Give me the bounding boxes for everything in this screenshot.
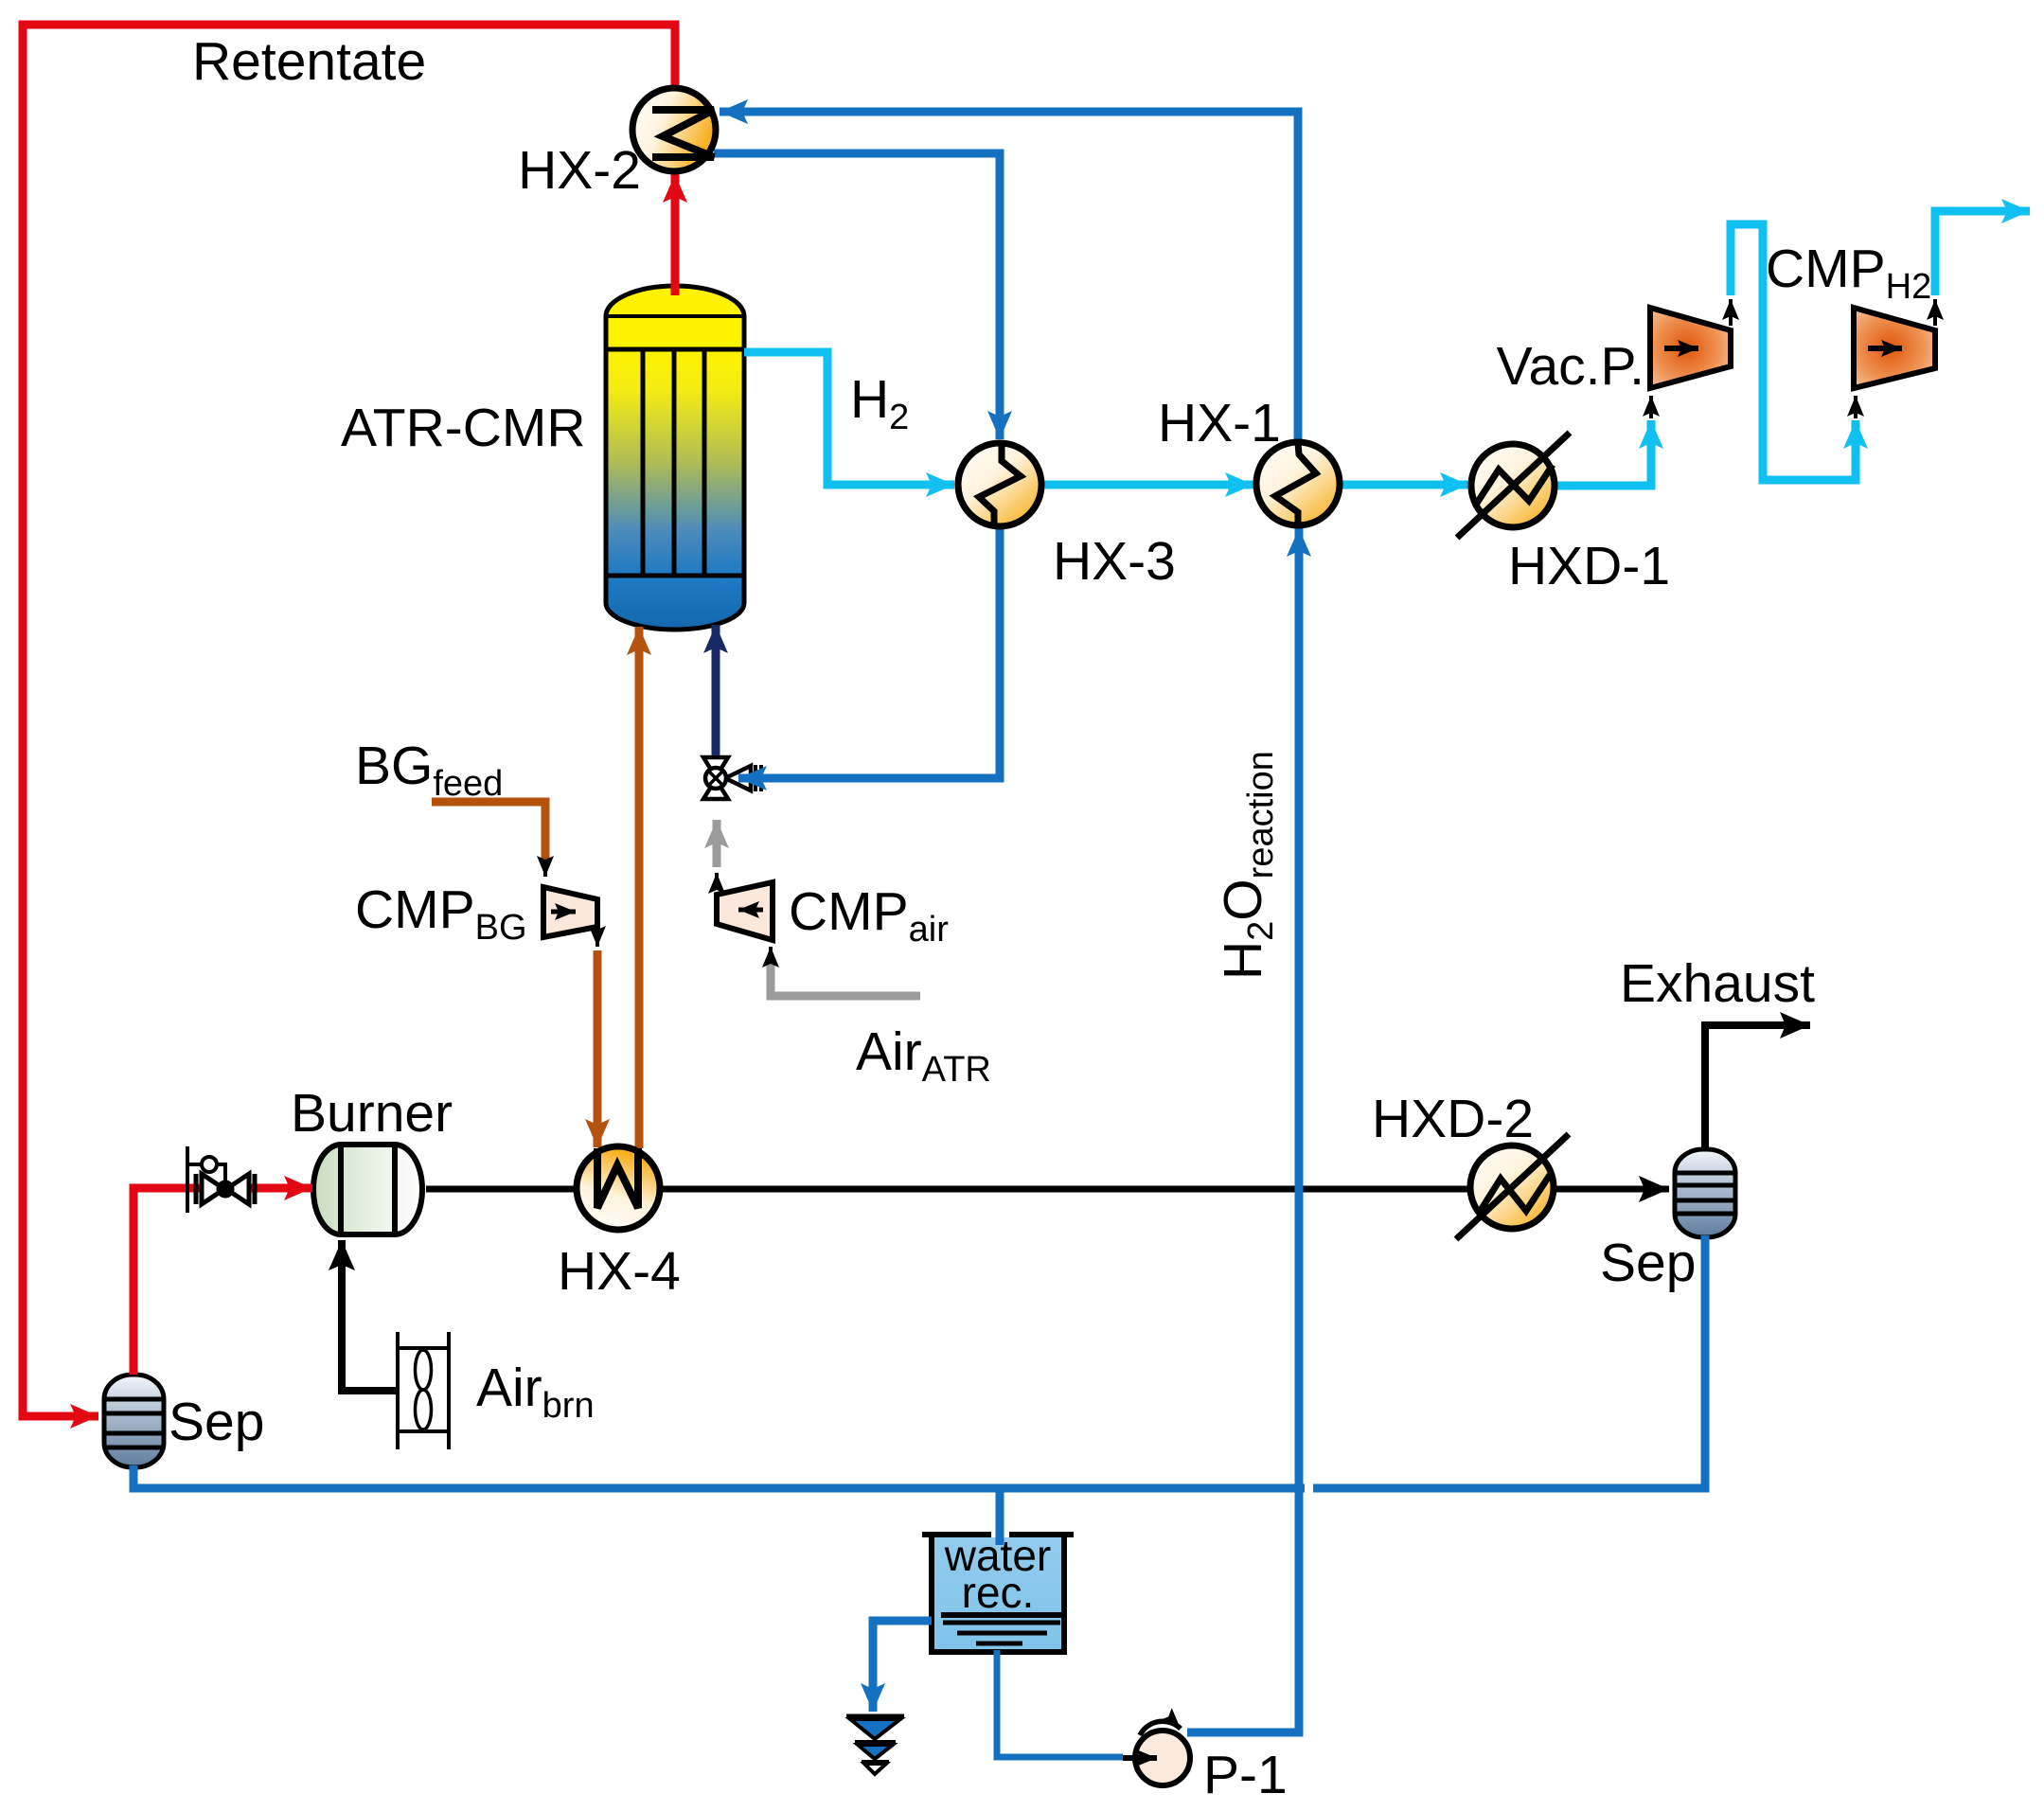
svg-text:HXD-1: HXD-1: [1508, 536, 1670, 596]
fan Air_brn: [398, 1332, 449, 1449]
svg-text:Vac.P.: Vac.P.: [1497, 336, 1644, 397]
svg-text:Retentate: Retentate: [192, 31, 426, 92]
cooler HXD-2: [1456, 1134, 1569, 1239]
svg-text:HX-4: HX-4: [558, 1241, 681, 1302]
separator Sep (left): [104, 1375, 164, 1467]
wire Vac.P. outlet to CMP_H2 (cyan): [1729, 299, 1733, 326]
compressor CMP_H2: [1854, 308, 1935, 388]
svg-text:ATR-CMR: ATR-CMR: [341, 398, 586, 458]
svg-text:H2: H2: [850, 369, 909, 437]
svg-text:Sep: Sep: [169, 1392, 264, 1452]
svg-text:H2Oreaction: H2Oreaction: [1213, 751, 1281, 980]
wire CMP_BG outlet to HX-4: [595, 939, 599, 947]
heat exchanger HX-4: [577, 1146, 660, 1230]
svg-text:CMPH2: CMPH2: [1766, 239, 1931, 307]
svg-text:rec.: rec.: [962, 1568, 1035, 1617]
wire HX-2 to HX-3 (blue water): [714, 153, 1000, 439]
heat exchanger HX-2: [632, 88, 716, 171]
wire tank to drain: [873, 1621, 932, 1712]
burner vessel: [313, 1145, 422, 1234]
control valve (red line): [187, 1146, 255, 1213]
svg-text:Exhaust: Exhaust: [1620, 953, 1815, 1014]
wire tank inlet branch: [996, 1488, 1004, 1545]
wire HX-1 top to HX-2 (blue water): [720, 112, 1298, 439]
svg-text:P-1: P-1: [1203, 1745, 1288, 1805]
svg-text:CMPBG: CMPBG: [355, 879, 527, 948]
pump P-1: [1123, 1721, 1190, 1785]
svg-text:AirATR: AirATR: [856, 1021, 991, 1090]
compressor CMP_air: [717, 882, 773, 940]
wire Sep to valve to burner (red): [133, 1188, 312, 1375]
VESSELS: [104, 286, 1735, 1774]
wire valve to reactor (navy): [712, 625, 720, 755]
cooler HXD-1: [1457, 433, 1570, 538]
wire Exhaust from Sep: [1705, 1025, 1810, 1147]
svg-text:Burner: Burner: [291, 1083, 453, 1144]
wire condensate header: Sep(L) and Sep(R) to tank (blue): [133, 1235, 1705, 1488]
svg-text:CMPair: CMPair: [789, 881, 949, 950]
heat exchanger HX-3: [958, 443, 1041, 526]
wire HX-3 to 3-way valve (blue water): [738, 526, 1000, 778]
svg-text:Airbrn: Airbrn: [476, 1358, 595, 1426]
reactor ATR-CMR: [606, 286, 744, 630]
svg-text:HX-1: HX-1: [1158, 393, 1281, 453]
svg-text:HX-2: HX-2: [518, 140, 641, 201]
svg-text:Sep: Sep: [1600, 1233, 1696, 1293]
wire retentate: HX-2 top, around left side, to Sep: [23, 25, 675, 1416]
wire CMP_air outlet to valve (gray): [715, 873, 719, 880]
wire CMP_H2 outlet to product H2 (cyan): [1933, 299, 1937, 326]
wire reactor top to HX-2 (red): [671, 174, 680, 295]
heat exchanger HX-1: [1256, 442, 1340, 525]
wire P-1 to HX-1 (H2O reaction, blue): [1187, 528, 1299, 1732]
water rec. tank: [922, 1531, 1074, 1652]
wire Air_brn fan to burner: [342, 1240, 398, 1391]
wire Air_ATR to CMP_air: [771, 960, 920, 996]
wire H2 permeate from reactor to HX-3 (cyan): [744, 352, 954, 485]
wire tank to P-1 pump: [997, 1650, 1123, 1757]
drain symbol: [846, 1716, 904, 1774]
vacuum pump Vac.P.: [1650, 308, 1731, 388]
svg-text:HXD-2: HXD-2: [1372, 1089, 1534, 1149]
wire HX-3 to HX-1 (cyan): [1041, 481, 1253, 489]
wire HX-1 to HXD-1 (cyan): [1340, 481, 1468, 489]
separator Sep (right): [1675, 1149, 1735, 1237]
svg-text:BGfeed: BGfeed: [355, 736, 503, 804]
3-way valve (steam/air mix): [703, 757, 761, 799]
wire HX-4 to reactor (brown): [635, 627, 644, 1148]
wire burner to HXD-2 to Sep (black flue gas line): [426, 1186, 1669, 1193]
svg-text:HX-3: HX-3: [1053, 531, 1176, 592]
compressor CMP_BG: [543, 887, 597, 937]
wire BG feed to CMP_BG: [432, 802, 545, 863]
wire HXD-1 to Vac.P. (cyan): [1555, 420, 1651, 486]
